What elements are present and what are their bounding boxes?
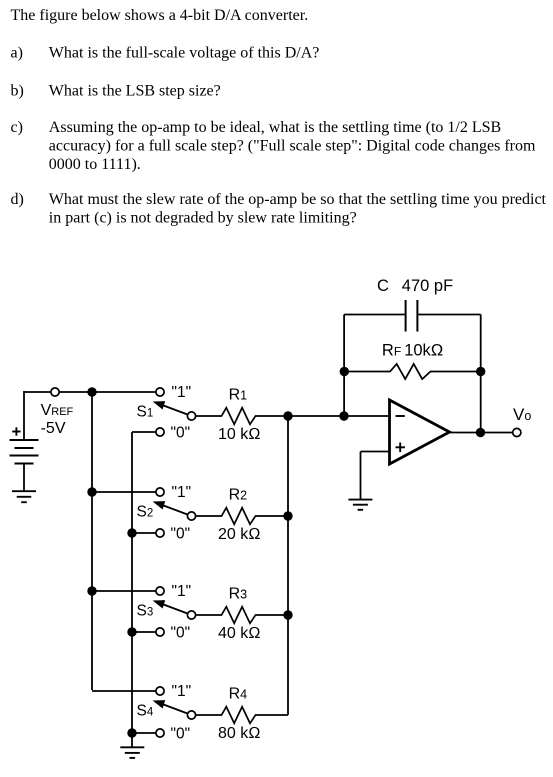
svg-text:"1": "1" [172, 484, 192, 501]
wire left bus (VREF rail down to S4) [91, 392, 93, 690]
label "0" (S4) [171, 725, 191, 742]
switch S3 arm [153, 600, 192, 615]
wire S1 "0" contact to ground bus [132, 431, 160, 433]
capacitor C [344, 300, 481, 332]
svg-text:"1": "1" [172, 384, 192, 401]
label "0" (S2) [171, 525, 191, 542]
svg-text:80 kΩ: 80 kΩ [218, 725, 261, 742]
node right bus / R1 [283, 411, 292, 420]
svg-text:b): b) [11, 82, 24, 99]
label S4 [137, 703, 154, 720]
svg-text:20 kΩ: 20 kΩ [218, 526, 261, 543]
wire feedback left vertical [343, 315, 345, 417]
switch S2 pole contact [187, 512, 195, 520]
svg-text:VREF: VREF [41, 402, 74, 419]
node output / feedback [476, 428, 485, 437]
label S3 [137, 603, 154, 620]
svg-text:10 kΩ: 10 kΩ [218, 426, 261, 443]
label R4 value [218, 725, 261, 742]
svg-text:"0": "0" [171, 424, 191, 441]
node right bus / R2 [283, 511, 292, 520]
wire S2 "1" contact to VREF bus [92, 491, 160, 493]
svg-text:S1: S1 [137, 404, 154, 421]
switch S1 "1" contact [156, 388, 164, 396]
svg-text:d): d) [11, 191, 24, 208]
label Vo [513, 405, 531, 424]
battery VREF (-5V source) [10, 391, 39, 492]
svg-text:10kΩ: 10kΩ [404, 341, 443, 359]
label "1" (S2) [172, 484, 192, 501]
switch S4 "1" contact [156, 687, 164, 695]
node right bus / R3 [283, 610, 292, 619]
switch S2 arm [153, 501, 192, 516]
label S1 [137, 404, 154, 421]
label R1 value [218, 426, 261, 443]
svg-text:-5V: -5V [41, 420, 66, 437]
label VREF [41, 402, 74, 419]
svg-text:40 kΩ: 40 kΩ [218, 625, 261, 642]
wire ground bus (S "0" contacts) [131, 432, 133, 747]
wire S4 "0" contact to ground bus [132, 732, 160, 734]
label "1" (S4) [172, 683, 192, 700]
node RF right [476, 367, 485, 376]
svg-text:accuracy) for a full scale ste: accuracy) for a full scale step? ("Full … [49, 138, 536, 155]
svg-text:The figure below shows a 4-bit: The figure below shows a 4-bit D/A conve… [11, 7, 309, 24]
switch S2 "1" contact [156, 488, 164, 496]
resistor R1 [196, 408, 288, 425]
svg-text:RF: RF [382, 341, 401, 359]
wire S2 "0" contact to ground bus [132, 532, 160, 534]
node ground bus / S3 "0" [127, 627, 136, 636]
ground (switch bus) [120, 747, 144, 758]
wire feedback right vertical [480, 315, 482, 433]
label R1 [229, 387, 248, 404]
node left bus / S3 "1" [87, 586, 96, 595]
node RF left [340, 367, 349, 376]
node left bus / S2 "1" [87, 487, 96, 496]
wire summing node to inverting input [288, 415, 390, 417]
switch S1 pole contact [187, 412, 195, 420]
svg-text:R3: R3 [229, 586, 248, 603]
switch S3 "1" contact [156, 587, 164, 595]
switch S4 "0" contact [156, 729, 164, 737]
svg-text:a): a) [11, 45, 23, 62]
svg-text:R1: R1 [229, 387, 248, 404]
svg-text:"1": "1" [172, 583, 192, 600]
svg-text:What must the slew rate of the: What must the slew rate of the op-amp be… [49, 191, 547, 208]
wire output [450, 432, 517, 434]
svg-text:"0": "0" [171, 725, 191, 742]
svg-text:in part (c) is not degraded by: in part (c) is not degraded by slew rate… [49, 209, 357, 226]
label "1" (S3) [172, 583, 192, 600]
wire S3 "0" contact to ground bus [132, 631, 160, 633]
svg-text:R2: R2 [229, 487, 248, 504]
label R2 value [218, 526, 261, 543]
svg-text:c): c) [11, 119, 23, 136]
svg-text:"1": "1" [172, 683, 192, 700]
resistor R4 [196, 707, 288, 724]
label S2 [137, 504, 154, 521]
switch S1 "0" contact [156, 428, 164, 436]
op-amp U1 [390, 400, 450, 464]
svg-text:R4: R4 [229, 686, 248, 703]
switch S2 "0" contact [156, 529, 164, 537]
switch S1 arm [153, 401, 192, 416]
label "1" (S1) [172, 384, 192, 401]
switch S3 "0" contact [156, 628, 164, 636]
label R3 value [218, 625, 261, 642]
wire right bus (summing node) [287, 416, 289, 715]
node ground bus / S2 "0" [127, 528, 136, 537]
svg-text:Vo: Vo [513, 405, 531, 424]
switch S4 pole contact [187, 711, 195, 719]
svg-text:0000 to 1111).: 0000 to 1111). [49, 156, 141, 173]
label "0" (S1) [171, 424, 191, 441]
svg-text:What is the LSB step size?: What is the LSB step size? [49, 82, 221, 99]
wire S3 "1" contact to VREF bus [92, 590, 160, 592]
svg-text:S4: S4 [137, 703, 154, 720]
battery + polarity mark [12, 427, 20, 435]
ground (op-amp +) [348, 500, 372, 510]
label R4 [229, 686, 248, 703]
label "0" (S3) [171, 624, 191, 641]
label R3 [229, 586, 248, 603]
svg-text:What is the full-scale voltage: What is the full-scale voltage of this D… [49, 45, 320, 62]
resistor R2 [196, 508, 288, 525]
label -5V [41, 420, 66, 437]
label R2 [229, 487, 248, 504]
resistor RF [344, 364, 481, 379]
svg-text:Assuming the op-amp to be idea: Assuming the op-amp to be ideal, what is… [49, 119, 501, 136]
switch S4 arm [153, 700, 192, 715]
resistor R3 [196, 607, 288, 624]
wire noninverting input to ground [361, 452, 390, 500]
switch S3 pole contact [187, 611, 195, 619]
ground (battery) [12, 491, 36, 502]
svg-text:S2: S2 [137, 504, 154, 521]
label RF 10k [382, 341, 444, 359]
svg-text:C: C [377, 277, 389, 295]
svg-text:"0": "0" [171, 525, 191, 542]
terminal VREF tap [51, 388, 59, 396]
node feedback tap [339, 411, 348, 420]
terminal Vo [513, 428, 521, 436]
svg-text:S3: S3 [137, 603, 154, 620]
node ground bus / S4 "0" [127, 728, 136, 737]
node top rail / left bus [87, 387, 96, 396]
label C 470 pF [377, 277, 453, 295]
wire S4 "1" contact to VREF bus [92, 690, 160, 692]
wire top rail (battery to S1 "1") [24, 391, 160, 393]
svg-text:"0": "0" [171, 624, 191, 641]
svg-text:470 pF: 470 pF [402, 277, 453, 295]
